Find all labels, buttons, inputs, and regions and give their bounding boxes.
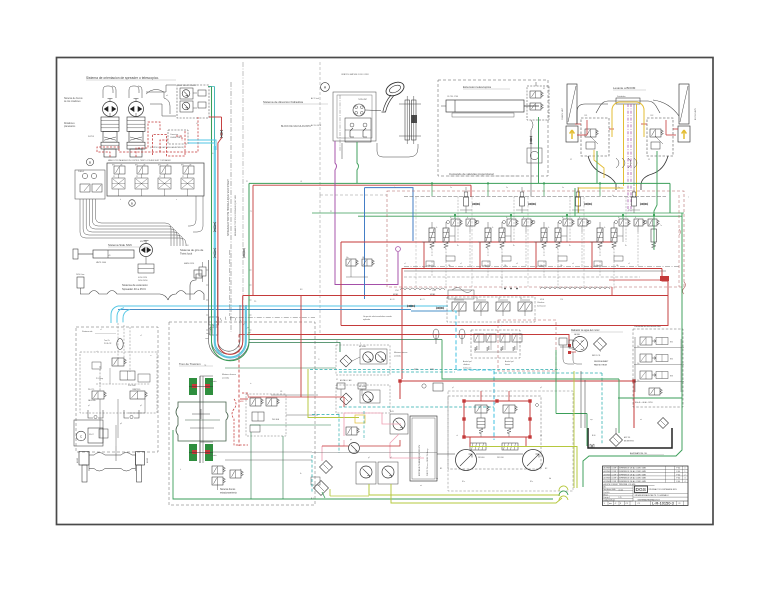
svg-text:12a: 12a: [637, 363, 640, 365]
svg-text:ch: ch: [456, 435, 458, 437]
svg-text:DGS: DGS: [636, 487, 646, 493]
svg-text:2b: 2b: [457, 245, 459, 247]
svg-text:0: 0: [685, 468, 686, 470]
svg-text:4b: 4b: [549, 478, 551, 480]
svg-text:12a: 12a: [637, 346, 640, 348]
svg-text:q3: q3: [120, 423, 122, 425]
svg-text:RPM: RPM: [414, 369, 418, 371]
svg-text:Twist lock: Twist lock: [180, 252, 193, 256]
svg-text:EV3: EV3: [670, 376, 673, 378]
svg-text:SER C.CD.: SER C.CD.: [592, 355, 601, 357]
svg-text:p2: p2: [540, 387, 542, 389]
svg-text:FAN MOTEUR: FAN MOTEUR: [594, 363, 608, 366]
svg-text:Levante a BOOM: Levante a BOOM: [613, 86, 636, 90]
svg-text:B: B: [131, 201, 133, 205]
svg-text:cilindros: cilindros: [463, 364, 470, 366]
svg-text:P2: P2: [330, 211, 332, 213]
svg-text:Sistema de extension: Sistema de extension: [122, 283, 148, 287]
svg-text:B2a: B2a: [530, 481, 533, 483]
svg-text:14a: 14a: [540, 265, 543, 267]
svg-text:F 60: F 60: [677, 478, 681, 480]
svg-text:q1: q1: [88, 405, 90, 407]
svg-text:b: b: [120, 199, 121, 201]
svg-text:asp: asp: [590, 419, 593, 421]
svg-text:F1: F1: [336, 341, 338, 343]
svg-text:cd: cd: [540, 435, 542, 437]
svg-text:C54: C54: [560, 299, 563, 301]
svg-text:r5: r5: [212, 152, 214, 155]
svg-text:EV1: EV1: [670, 342, 673, 344]
svg-text:95-07: 95-07: [89, 434, 94, 436]
svg-text:Conector: Conector: [170, 133, 178, 136]
svg-text:ASP FIL: ASP FIL: [624, 436, 630, 439]
svg-text:g1: g1: [368, 457, 370, 459]
svg-text:RPM: RPM: [430, 369, 434, 371]
svg-text:Sistema de frenos: Sistema de frenos: [64, 97, 83, 100]
svg-text:21: 21: [159, 176, 161, 178]
svg-text:2b: 2b: [513, 245, 515, 247]
svg-text:C54: C54: [432, 290, 435, 292]
svg-text:apilador: apilador: [363, 319, 370, 321]
svg-text:P-5 Brap: P-5 Brap: [96, 378, 103, 380]
svg-text:ac2: ac2: [500, 349, 503, 351]
svg-text:x5: x5: [628, 263, 630, 265]
svg-text:1a: 1a: [394, 187, 396, 189]
svg-text:6a: 6a: [612, 195, 614, 197]
svg-text:s2: s2: [140, 335, 142, 337]
svg-text:B-05: B-05: [390, 411, 394, 413]
svg-text:L-R-10150-3: L-R-10150-3: [652, 501, 674, 506]
svg-text:Motores frenos: Motores frenos: [222, 373, 236, 376]
svg-text:21: 21: [182, 176, 184, 178]
svg-text:20/50 20/50: 20/50 20/50: [138, 280, 148, 282]
svg-text:F 60: F 60: [677, 481, 681, 483]
svg-text:Tren de Traccion: Tren de Traccion: [179, 362, 201, 366]
svg-text:STIL/REAL TOOL SISTEMA DE MOV: STIL/REAL TOOL SISTEMA DE MOV: [649, 488, 678, 491]
svg-text:VALVULA: VALVULA: [88, 399, 96, 402]
svg-text:Gen-ahecn al dib: Gen-ahecn al dib: [603, 489, 615, 491]
svg-text:CB1: CB1: [584, 115, 587, 117]
svg-text:3a: 3a: [506, 187, 508, 189]
svg-text:10b: 10b: [362, 257, 365, 259]
svg-text:DR 460: DR 460: [478, 457, 484, 459]
svg-text:B2: B2: [545, 468, 547, 470]
svg-text:w1: w1: [166, 95, 168, 97]
svg-text:Sistema de orientacion de spre: Sistema de orientacion de spreader o tel…: [86, 76, 159, 80]
svg-text:PLAN-V: PLAN-V: [78, 170, 85, 173]
svg-text:k2: k2: [196, 123, 198, 125]
svg-text:fs: fs: [240, 469, 241, 471]
svg-text:DR C60: DR C60: [497, 457, 504, 459]
svg-text:Suscrip 1: Suscrip 1: [603, 497, 610, 499]
svg-text:Sistema de direccion hidraulic: Sistema de direccion hidraulica: [263, 100, 303, 104]
svg-text:A5 MWG CONF CONFERENCE DE AL C: A5 MWG CONF CONFERENCE DE AL COMO GMB: [604, 467, 647, 470]
svg-text:4a: 4a: [562, 187, 564, 189]
svg-text:AC 50 107R: AC 50 107R: [311, 124, 322, 127]
svg-text:B 60: B 60: [592, 435, 596, 437]
svg-text:BLOCK DE VALVULAS 80TA: BLOCK DE VALVULAS 80TA: [281, 125, 311, 128]
svg-text:CB2: CB2: [650, 115, 653, 117]
svg-text:Mecan: Mecan: [603, 494, 608, 496]
svg-text:BREAKER TOP PSI HYDRAULIQUE VE: BREAKER TOP PSI HYDRAULIQUE VER: [234, 194, 237, 236]
svg-text:Dib: Dib: [603, 487, 606, 489]
svg-text:F 60: F 60: [677, 474, 681, 476]
svg-text:s1: s1: [100, 329, 102, 331]
svg-text:2a: 2a: [450, 187, 452, 189]
svg-text:ORBITROL: ORBITROL: [132, 389, 141, 391]
svg-text:4A PAG: 4A PAG: [574, 333, 581, 336]
svg-text:14: 14: [494, 403, 496, 405]
svg-text:x1: x1: [404, 263, 406, 265]
svg-text:V3: V3: [648, 159, 650, 161]
svg-text:de los rotadores: de los rotadores: [64, 100, 81, 103]
svg-text:inclinacion: inclinacion: [537, 305, 546, 307]
svg-text:Comando de valvulas proporcion: Comando de valvulas proporcional: [449, 172, 494, 176]
svg-text:Codsa TeCS gm: Codsa TeCS gm: [603, 500, 615, 502]
svg-text:x3: x3: [516, 263, 518, 265]
svg-text:AL-21: AL-21: [420, 298, 425, 301]
svg-text:pk: pk: [350, 439, 352, 441]
svg-text:14a: 14a: [484, 265, 487, 267]
svg-text:A4 MWG CONF CONFERENCE DE AL C: A4 MWG CONF CONFERENCE DE AL COMO GMB: [604, 470, 647, 473]
svg-text:Aceite hyd: Aceite hyd: [505, 360, 513, 363]
svg-text:BB METERS: BB METERS: [624, 440, 635, 442]
svg-text:MANDO POR PALANCA CON CONTROL: MANDO POR PALANCA CON CONTROL TWIST LOCK…: [108, 159, 171, 162]
svg-text:F 60: F 60: [677, 471, 681, 473]
svg-text:F2: F2: [336, 379, 338, 381]
svg-text:Radiador de agua del motor: Radiador de agua del motor: [571, 329, 600, 332]
svg-text:x4: x4: [572, 263, 574, 265]
svg-text:P1: P1: [246, 181, 248, 183]
svg-text:P/N 2948: P/N 2948: [128, 385, 136, 387]
svg-text:B-1: B-1: [311, 498, 314, 500]
svg-text:20/50 Line: 20/50 Line: [76, 274, 84, 276]
svg-text:MS 970: MS 970: [140, 241, 147, 243]
svg-text:AN PAG C AN: AN PAG C AN: [340, 379, 352, 382]
svg-text:em: em: [609, 503, 612, 505]
svg-text:V1: V1: [543, 88, 545, 90]
svg-text:BB 100B: BB 100B: [359, 386, 367, 388]
svg-text:A3 MWG CONF CONFERENCE DE AL C: A3 MWG CONF CONFERENCE DE AL COMO GMB: [604, 473, 647, 476]
svg-text:ORBITOL EMPUJE CODO CIRO: ORBITOL EMPUJE CODO CIRO: [341, 74, 369, 76]
svg-text:Rueda: Rueda: [210, 455, 217, 457]
svg-text:TURN UNIT: TURN UNIT: [358, 99, 367, 101]
svg-text:Spreader 40 a 45 Ft: Spreader 40 a 45 Ft: [122, 287, 146, 291]
svg-text:Extension telescopica: Extension telescopica: [463, 85, 491, 89]
svg-text:Sistema Side Shift: Sistema Side Shift: [108, 243, 132, 247]
svg-text:5a: 5a: [618, 187, 620, 189]
svg-text:frenos: frenos: [505, 364, 510, 366]
svg-text:Cilindros: Cilindros: [537, 301, 544, 304]
svg-text:2: 2: [685, 474, 686, 476]
svg-text:ln: ln: [562, 217, 563, 219]
svg-text:EV2: EV2: [670, 359, 673, 361]
svg-text:p1: p1: [452, 387, 454, 389]
svg-text:MA/50 1524: MA/50 1524: [184, 262, 194, 265]
svg-text:10a: 10a: [346, 257, 349, 259]
svg-text:tx: tx: [250, 382, 251, 385]
svg-text:g2: g2: [390, 457, 392, 459]
svg-text:Grupo de electrovalvulas mando: Grupo de electrovalvulas mando: [363, 315, 393, 318]
svg-text:BB 100A: BB 100A: [359, 345, 367, 348]
svg-text:IVECO TH-mm GD86 TH-Assy: IVECO TH-mm GD86 TH-Assy: [426, 449, 429, 476]
svg-text:PV-S-CR: PV-S-CR: [104, 343, 112, 345]
svg-text:14b: 14b: [448, 265, 451, 267]
svg-text:Distribuidor: Distribuidor: [617, 95, 626, 98]
svg-text:GRUAS HIDRAULICAS TIL 7-5 HIDR: GRUAS HIDRAULICAS TIL 7-5 HIDRAULI: [635, 494, 669, 497]
svg-text:Rotadores: Rotadores: [64, 122, 75, 125]
svg-text:ASPIRATION OIL: ASPIRATION OIL: [630, 452, 648, 455]
svg-text:R-P53: R-P53: [88, 136, 95, 138]
svg-text:em 04: em 04: [619, 489, 623, 491]
svg-text:2b: 2b: [625, 245, 627, 247]
svg-text:C54: C54: [395, 290, 398, 292]
svg-text:A1 MWG CONF CONFERENCE DE AL C: A1 MWG CONF CONFERENCE DE AL COMO GMB: [604, 480, 647, 483]
svg-text:Aceite hyd: Aceite hyd: [463, 360, 471, 363]
svg-text:4: 4: [685, 481, 686, 483]
svg-text:fb: fb: [300, 473, 301, 475]
svg-text:asistida: asistida: [394, 354, 402, 357]
svg-text:PILOTO: PILOTO: [88, 389, 95, 391]
svg-text:Motores frenos: Motores frenos: [394, 351, 407, 354]
svg-text:SPREADER TOP PSI HIDRAULIQUE V: SPREADER TOP PSI HIDRAULIQUE VER SHEET: [227, 179, 230, 236]
svg-text:B: B: [89, 160, 91, 164]
svg-text:x2: x2: [460, 263, 462, 265]
svg-text:21: 21: [136, 176, 138, 178]
svg-text:MOTEUR THERMIQUE 230 CV: MOTEUR THERMIQUE 230 CV: [419, 444, 421, 476]
svg-text:estacionamiento: estacionamiento: [220, 491, 237, 494]
svg-text:14a: 14a: [428, 265, 431, 267]
svg-text:ln: ln: [450, 217, 451, 219]
svg-text:Rueda: Rueda: [210, 381, 217, 383]
svg-text:AL-20: AL-20: [390, 298, 395, 301]
svg-text:BOOM 1497S: BOOM 1497S: [695, 107, 697, 120]
svg-text:1: 1: [685, 471, 686, 473]
svg-text:REFRIGERANT: REFRIGERANT: [594, 360, 609, 363]
svg-text:14b: 14b: [616, 265, 619, 267]
svg-text:14b: 14b: [560, 265, 563, 267]
svg-text:q2: q2: [140, 405, 142, 407]
svg-text:P&S 60A: P&S 60A: [272, 418, 280, 421]
svg-text:Tan Ch: Tan Ch: [104, 340, 110, 342]
svg-text:CIL/LEV 1497: CIL/LEV 1497: [562, 108, 564, 120]
svg-text:14a: 14a: [596, 265, 599, 267]
svg-text:CIL TEL 1766: CIL TEL 1766: [447, 96, 458, 98]
svg-text:7a: 7a: [660, 225, 662, 227]
svg-text:F 60: F 60: [677, 468, 681, 470]
svg-text:planetarios: planetarios: [64, 125, 76, 128]
svg-text:a: a: [176, 199, 177, 201]
svg-text:VA/TS 1040: VA/TS 1040: [96, 261, 106, 264]
svg-text:asistida: asistida: [222, 376, 230, 379]
svg-text:T: T: [688, 197, 689, 199]
svg-text:2b: 2b: [569, 245, 571, 247]
svg-text:B1: B1: [440, 468, 442, 470]
svg-text:V2: V2: [570, 159, 572, 161]
svg-text:inclinacion: inclinacion: [463, 367, 471, 369]
svg-text:VALV SELECTORA SP: VALV SELECTORA SP: [178, 84, 197, 87]
svg-text:4a: 4a: [436, 478, 438, 480]
svg-text:14b: 14b: [504, 265, 507, 267]
svg-text:21: 21: [113, 176, 115, 178]
svg-text:(CONTROL DE LAS VALVULAS ANTER: (CONTROL DE LAS VALVULAS ANTERIOR): [150, 146, 184, 149]
svg-text:3: 3: [685, 478, 686, 480]
svg-text:12a: 12a: [637, 380, 640, 382]
svg-text:Sistema frenos: Sistema frenos: [220, 488, 236, 491]
svg-text:A2 MWG CONF CONFERENCE DE AL C: A2 MWG CONF CONFERENCE DE AL COMO GMB: [604, 477, 647, 480]
svg-text:T1: T1: [250, 211, 252, 213]
svg-text:1:25: 1:25: [619, 497, 622, 499]
svg-text:4L/50 1524: 4L/50 1524: [138, 277, 147, 279]
svg-text:Sistema de: Sistema de: [82, 330, 93, 333]
svg-text:Comando de electrovalv.Gas: Comando de electrovalv.Gas: [634, 325, 661, 328]
svg-text:ln: ln: [506, 217, 507, 219]
svg-text:CLASE CNF 1: CLASE CNF 1: [170, 136, 182, 139]
svg-text:Pro Vo b: Pro Vo b: [603, 492, 609, 494]
svg-text:ac1: ac1: [474, 349, 477, 351]
svg-text:B1a: B1a: [462, 481, 465, 483]
svg-text:AC 1 hidr: AC 1 hidr: [311, 97, 319, 100]
svg-text:ln: ln: [618, 217, 619, 219]
